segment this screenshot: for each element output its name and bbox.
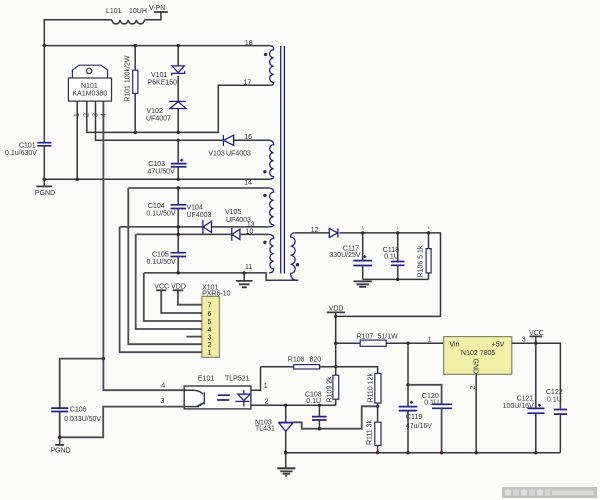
terminal VDD — [173, 289, 183, 291]
svg-text:+5V: +5V — [492, 342, 505, 349]
node junction V+/C101 — [43, 44, 46, 47]
svg-text:17: 17 — [244, 79, 252, 86]
node junction R110/R111/REF — [376, 405, 379, 408]
svg-text:VDD: VDD — [171, 283, 186, 290]
wire PGND bus (node 14 primary return) — [44, 178, 269, 180]
svg-text:14: 14 — [244, 179, 252, 186]
node junction R106 top — [427, 231, 430, 234]
ground at transformer pin 11 — [243, 273, 245, 281]
svg-text:C103: C103 — [148, 161, 165, 168]
diode V106 output rectifier — [329, 228, 337, 237]
svg-text:0.1U/50V: 0.1U/50V — [147, 259, 177, 266]
node junction C103 bottom — [177, 178, 180, 181]
capacitor C120 — [408, 385, 442, 404]
svg-text:UF4003: UF4003 — [226, 150, 251, 157]
node junction C117 top — [361, 231, 364, 234]
wire E101 pin1 to R108 — [251, 367, 261, 391]
svg-text:C104: C104 — [148, 203, 165, 210]
wire node 11 — [144, 273, 298, 280]
wire node 13 — [120, 226, 203, 228]
svg-text:R109 2k: R109 2k — [326, 376, 333, 403]
svg-text:N101: N101 — [81, 83, 98, 90]
svg-text:V102: V102 — [147, 108, 163, 115]
capacitor C119 — [407, 343, 409, 406]
svg-text:PXR6-10: PXR6-10 — [202, 291, 231, 298]
transformer winding 10-11 — [269, 234, 274, 273]
wire top-left from V+ bus up to L101 — [44, 20, 112, 46]
wire X101 pin7 to VDD — [178, 291, 202, 305]
svg-text:4: 4 — [208, 327, 212, 334]
svg-text:4: 4 — [161, 382, 165, 389]
diode V105 UF4003 — [231, 228, 233, 241]
capacitor C103 — [177, 140, 179, 163]
optocoupler E101 TLP521 box — [184, 386, 251, 409]
node junction R101 bottom — [134, 131, 137, 134]
node junction C106 bottom — [58, 436, 62, 440]
wire E101 pin3 return to PGND — [60, 407, 185, 438]
svg-text:100U/16V: 100U/16V — [503, 403, 534, 410]
wire X101 pin3 stub — [186, 336, 202, 338]
ground secondary aux — [354, 281, 372, 286]
wire N101 pin4 FB down to optocoupler — [103, 101, 184, 390]
transformer winding 14-13 — [269, 188, 274, 227]
transformer winding 16-14 — [269, 140, 274, 179]
diode V104 UF4003 — [202, 220, 204, 234]
svg-text:R110 12k: R110 12k — [368, 373, 375, 403]
transformer primary winding 18-17 — [270, 46, 274, 86]
svg-text:PGND: PGND — [50, 448, 70, 455]
node junction C118 bottom — [396, 278, 399, 281]
svg-text:1: 1 — [428, 337, 432, 344]
svg-text:18: 18 — [245, 40, 253, 47]
svg-text:R108: R108 — [288, 357, 305, 364]
node junction ground 11 — [243, 271, 246, 274]
svg-text:C119: C119 — [406, 414, 422, 421]
node junction C119 top — [406, 342, 409, 345]
svg-text:2: 2 — [265, 399, 269, 406]
svg-text:3: 3 — [522, 337, 526, 344]
svg-text:3: 3 — [208, 334, 212, 341]
node junction on wire13 — [177, 225, 180, 228]
svg-text:0.1U: 0.1U — [424, 400, 439, 407]
wire N102 out to VCC — [512, 343, 561, 409]
diode V103 UF4003 — [222, 135, 224, 146]
svg-text:V101: V101 — [151, 72, 167, 79]
resistor R110 — [375, 374, 381, 404]
transformer secondary winding 12 — [291, 233, 299, 280]
node junction C108 top — [318, 404, 321, 407]
connector X101 PXR6-10 — [202, 296, 220, 357]
voltage-regulator N102 7805 — [444, 337, 512, 375]
node junction VDD feed — [334, 315, 337, 318]
wire X101 pin4 to node 10 — [136, 234, 202, 329]
wire X101 pin6 to VCC — [161, 291, 202, 314]
svg-text:7: 7 — [208, 303, 212, 310]
svg-text:V105: V105 — [225, 209, 241, 216]
coupling arrows E101 — [217, 395, 230, 400]
diode V101 P6KE150 TVS — [177, 46, 179, 66]
svg-text:0.1u/630V: 0.1u/630V — [5, 150, 37, 157]
node junction on wire10 — [177, 233, 180, 236]
wire X101 pin2 to node 14b — [128, 188, 202, 344]
diode LED E101 — [243, 390, 245, 394]
svg-text:UF4003: UF4003 — [187, 212, 212, 219]
svg-text:VCC: VCC — [154, 283, 169, 290]
node junction C121 top — [534, 342, 537, 345]
node junction R107 left — [334, 342, 337, 345]
svg-text:11: 11 — [245, 264, 252, 271]
node junction TL431 anode — [284, 451, 288, 455]
svg-text:N102 7805: N102 7805 — [461, 350, 495, 357]
node phase dot winding1 — [264, 53, 267, 56]
node junction C120 tap — [406, 383, 409, 386]
svg-text:C105: C105 — [152, 252, 169, 259]
capacitor C101 — [43, 46, 45, 142]
svg-text:KA1M0380: KA1M0380 — [73, 91, 108, 98]
svg-text:R106 5.1k: R106 5.1k — [418, 245, 425, 277]
svg-text:C122: C122 — [546, 389, 563, 396]
node phase dot winding4 — [263, 241, 266, 244]
wire L101 to V-PN terminal — [145, 12, 161, 20]
resistor R109 — [333, 375, 339, 399]
svg-text:5: 5 — [208, 319, 212, 326]
watermark band — [502, 487, 597, 498]
svg-text:TLP521: TLP521 — [225, 375, 250, 382]
transistor phototransistor E101 — [184, 390, 203, 394]
svg-text:47U/50V: 47U/50V — [148, 169, 176, 176]
node junction C101/PGND — [43, 178, 46, 181]
capacitor C105 — [171, 253, 187, 257]
svg-text:V104: V104 — [187, 205, 203, 212]
svg-text:V-PN: V-PN — [149, 5, 165, 12]
wire X101 pin5 to node 11 — [144, 273, 202, 321]
svg-text:E101: E101 — [198, 375, 214, 382]
wire bottom ground bus — [286, 452, 561, 454]
svg-text:UF4007: UF4007 — [146, 116, 171, 123]
svg-text:R111 3k: R111 3k — [366, 419, 373, 445]
svg-text:2: 2 — [208, 342, 212, 349]
svg-text:L101: L101 — [106, 8, 122, 15]
resistor R107 — [336, 342, 361, 344]
node junction C104 top — [177, 186, 180, 189]
inductor L101 — [112, 20, 145, 24]
wire V+ top bus (node 18) — [44, 45, 269, 47]
wire node 14b to winding3 top — [128, 187, 268, 189]
capacitor C117 — [362, 233, 364, 260]
node junction C108 bottom — [318, 427, 321, 430]
node junction C105 bottom / VDD — [177, 271, 180, 274]
node junction N101 pin1 — [76, 178, 79, 181]
transistor shunt-reg N103 TL431 — [285, 405, 287, 422]
svg-text:0.1U: 0.1U — [384, 254, 399, 261]
capacitor C122 — [554, 410, 567, 415]
svg-text:GND: GND — [471, 359, 478, 375]
svg-text:2: 2 — [470, 386, 477, 390]
svg-text:Vin: Vin — [450, 342, 460, 349]
svg-text:V103: V103 — [208, 150, 224, 157]
svg-text:UF4003: UF4003 — [226, 217, 251, 224]
ground main secondary — [285, 453, 287, 468]
resistor R101 — [134, 46, 136, 133]
svg-text:10: 10 — [246, 228, 254, 235]
svg-text:VCC: VCC — [529, 330, 544, 337]
svg-text:0.1U/50V: 0.1U/50V — [146, 210, 176, 217]
node phase dot winding2 — [263, 170, 266, 173]
node junction TL431 cathode — [284, 404, 287, 407]
resistor R106 — [428, 233, 430, 280]
svg-text:TL431: TL431 — [255, 426, 275, 433]
capacitor C108 — [318, 405, 320, 416]
svg-text:C121: C121 — [517, 395, 534, 402]
terminal VCC — [156, 289, 166, 291]
wire node 10 — [136, 233, 232, 235]
resistor R111 — [377, 406, 379, 422]
svg-text:C106: C106 — [70, 406, 87, 413]
node junction C103 top — [177, 139, 180, 142]
terminal V-PN — [154, 11, 168, 13]
wire VDD rail — [335, 312, 337, 375]
svg-text:330U/25V: 330U/25V — [329, 252, 360, 259]
svg-text:PGND: PGND — [35, 190, 55, 197]
tick marks above node 12 junctions — [362, 227, 429, 230]
svg-text:0.1U: 0.1U — [306, 398, 321, 405]
node junction C121 bottom — [534, 451, 537, 454]
capacitor C121 — [535, 343, 537, 408]
svg-text:6: 6 — [208, 311, 212, 318]
wire V103 to transformer pin16 — [234, 139, 269, 141]
node junction C118 top — [396, 231, 399, 234]
IC N101 KA1M0380 body — [68, 78, 111, 101]
capacitor C118 — [397, 233, 399, 261]
resistor R108 — [261, 366, 294, 368]
wire node 12 secondary output — [295, 232, 330, 234]
svg-text:1: 1 — [208, 350, 212, 357]
wire N102 GND pin — [475, 374, 477, 452]
wire X101 pin1 to node 13 — [120, 227, 202, 352]
svg-text:10UH: 10UH — [129, 8, 147, 15]
node junction V101 top — [177, 44, 180, 47]
wire V101 to V102 — [177, 76, 179, 101]
node junction R101 top — [134, 44, 137, 47]
svg-text:0.033U/50V: 0.033U/50V — [64, 416, 101, 423]
svg-text:3: 3 — [161, 398, 165, 405]
transformer core — [281, 46, 285, 274]
svg-text:51/1W: 51/1W — [378, 334, 399, 341]
terminal VCC secondary — [535, 337, 537, 344]
svg-text:12: 12 — [311, 227, 319, 234]
node junction V102 bottom — [177, 131, 180, 134]
wire N101 pin1 to PGND bus — [76, 101, 78, 179]
svg-text:R107: R107 — [357, 334, 374, 341]
svg-text:R101 100k/2W: R101 100k/2W — [125, 55, 132, 102]
IC N101 tab — [72, 65, 107, 78]
svg-text:1: 1 — [264, 383, 268, 390]
svg-text:0.1U: 0.1U — [547, 396, 562, 403]
capacitor C106 — [60, 359, 104, 408]
svg-text:16: 16 — [244, 134, 252, 141]
svg-text:820: 820 — [310, 357, 322, 364]
wire N101 pin3 VCC to V103 — [96, 101, 223, 140]
node junction R111 bottom — [376, 451, 379, 454]
diode V102 UF4007 — [169, 100, 186, 102]
node junction C106 top tap — [102, 357, 105, 360]
svg-text:C101: C101 — [19, 142, 36, 149]
svg-text:47u/16V: 47u/16V — [406, 423, 432, 430]
wire TL431 ref to divider — [294, 406, 378, 428]
ground PGND — [43, 179, 45, 186]
node junction C119 bottom — [406, 451, 409, 454]
node phase dot secondary — [296, 263, 299, 266]
svg-text:P6KE150: P6KE150 — [148, 80, 178, 87]
node phase dot winding3 — [263, 194, 266, 197]
ground PGND 2 — [59, 437, 61, 444]
wire secondary ground bus — [363, 278, 429, 280]
wire N101 pin2 drain to transformer pin17 — [87, 85, 270, 132]
wire E101 pin2 to R109/TL431 — [251, 404, 336, 406]
node junction N102 GND bottom — [475, 451, 478, 454]
capacitor C104 — [177, 188, 179, 204]
node junction C120 bottom — [440, 451, 443, 454]
node junction R108 right — [334, 365, 337, 368]
